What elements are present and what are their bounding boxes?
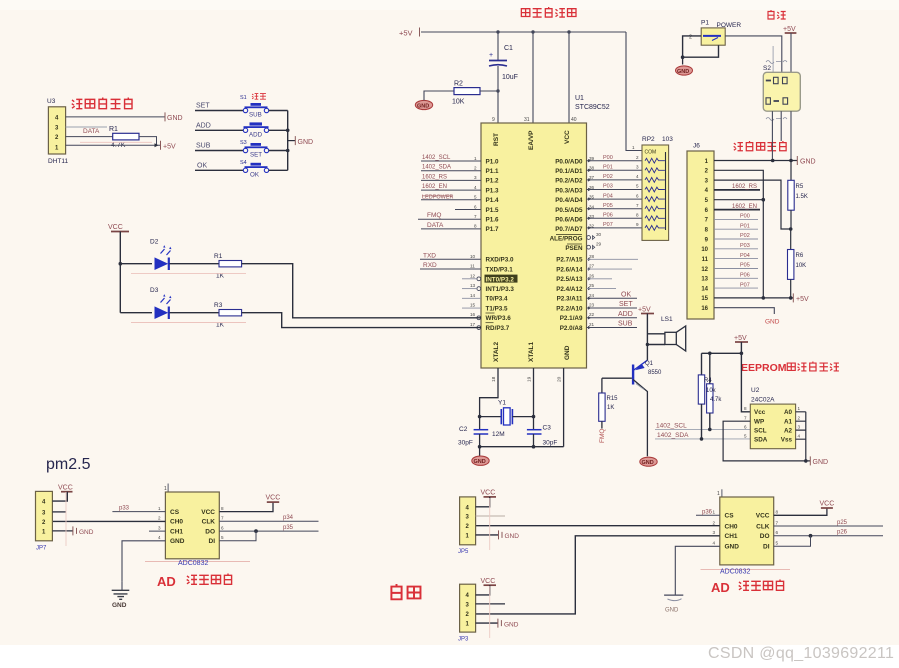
wire D2 to R1 [170,263,220,265]
svg-text:1402_SCL: 1402_SCL [422,155,451,161]
decoration pink line DHT11 [80,141,152,143]
svg-text:GND: GND [765,319,780,326]
svg-text:CH0: CH0 [725,523,738,530]
svg-text:10: 10 [701,247,708,253]
svg-text:C1: C1 [504,45,513,52]
wire JP5 pin4 to VCC [476,497,490,507]
svg-text:3: 3 [158,526,161,531]
capacitor C2 30pF [458,426,488,447]
wire J6 pin14 net P07 [714,287,758,289]
node junction rail row2 [286,129,290,133]
svg-text:+5V: +5V [399,29,413,38]
node junction C1 rail [496,30,499,33]
resistor R3 10k (pullup SDA) [698,353,704,440]
svg-text:2: 2 [798,415,801,420]
decoration pink line D2 row [131,272,246,274]
svg-text:P2.4/A12: P2.4/A12 [556,286,583,293]
power VCC (ADC1) [267,501,279,503]
svg-text:Y1: Y1 [498,400,506,407]
svg-text:SDA: SDA [754,436,768,443]
wire ADC2 CLK net p25 [774,525,883,527]
title 按键 [252,94,266,100]
svg-text:VCC: VCC [481,578,496,585]
wire ADC2 DI tie [774,536,811,547]
svg-text:INT0/P3.2: INT0/P3.2 [486,276,515,283]
svg-text:P0.3/AD3: P0.3/AD3 [555,187,583,194]
svg-text:1602_RS: 1602_RS [422,174,447,180]
wire P1.5 stub [455,209,481,211]
svg-text:16: 16 [470,312,476,317]
wire ADC2 DO net p26 [774,535,883,537]
wire rail to RP2 COM [626,32,642,151]
svg-text:GND: GND [298,139,314,146]
wire DHT11 pin1 to +5V [66,144,160,146]
power +5V (speaker) [638,307,654,345]
svg-text:23: 23 [589,303,595,308]
svg-text:P00: P00 [740,214,750,220]
svg-text:VCC: VCC [266,495,281,502]
svg-text:GND: GND [813,459,829,466]
svg-text:17: 17 [470,322,476,327]
svg-text:GND: GND [167,115,183,122]
svg-text:18: 18 [491,376,497,382]
svg-text:4.7k: 4.7k [710,397,722,403]
power GND (DHT11 pin4) [164,112,166,121]
svg-text:CS: CS [725,513,735,520]
ground GND (crystal) [472,447,489,466]
wire crystal ground rail [480,446,564,448]
wire net 1402_SCL [655,428,750,430]
power VCC (LED circuit) [108,224,129,313]
svg-text:ADD: ADD [249,131,263,138]
svg-text:AD: AD [157,574,176,589]
svg-text:A1: A1 [784,418,793,425]
svg-text:5: 5 [744,433,747,438]
wire J6 pin12 net P05 [714,268,758,270]
wire J6 pin5 [714,199,763,201]
svg-text:39: 39 [589,156,595,161]
wire S2 bottom left to GND rail [771,111,773,160]
svg-text:+5V: +5V [163,144,176,151]
svg-text:P01: P01 [740,223,750,229]
svg-text:GND: GND [170,538,185,545]
wire P0.7 to RP2 [587,227,643,229]
svg-text:P2.0/A8: P2.0/A8 [560,325,583,332]
capacitor C3 30pF [527,425,557,447]
svg-text:P1.6: P1.6 [486,217,499,224]
svg-text:22: 22 [589,312,595,317]
svg-text:D3: D3 [150,287,159,294]
svg-text:FMQ: FMQ [599,429,606,443]
wire ADC1 CH1 stub [149,530,165,532]
svg-text:p34: p34 [283,515,294,521]
decoration pink line JP7 [65,492,67,546]
wire P0.6 to RP2 [587,217,643,219]
svg-text:ADC0832: ADC0832 [720,569,750,576]
resistor R4 10k (pullup SCL) [704,353,722,431]
node junction D2 row [119,262,123,266]
svg-text:12M: 12M [492,431,505,438]
svg-text:P06: P06 [740,273,750,279]
svg-text:S3: S3 [240,140,247,146]
title 电源 [768,10,786,19]
svg-text:p25: p25 [837,520,848,526]
wire S2 bottom middle stub [780,111,782,141]
svg-text:103: 103 [662,136,673,143]
wire EA/VP to rail [532,32,534,123]
svg-text:p36: p36 [702,509,713,515]
wire JP7 pin3 stub [52,511,66,513]
svg-text:RXD: RXD [423,262,437,269]
ground GND (P1) [676,57,693,75]
wire ADC2 CH1 to JP3 pin2 [476,536,720,614]
svg-text:7: 7 [776,520,779,525]
wire P1 pin2 loop to GND [683,36,719,57]
power GND (U2) [809,456,811,465]
op-amp U4 ADC0832 (pm2.5) [145,484,250,568]
wire J6 pin10 net P03 [714,248,758,250]
node junction R5-GND rail [789,159,793,163]
wire P2.0 net SUB [587,327,638,329]
pin numbers P0 39-32 [589,156,602,247]
decoration pink line JP5 [489,498,491,550]
wire P1.0 net 1402_SCL [421,160,481,162]
wire J6 pin8 net P01 [714,228,758,230]
svg-text:7: 7 [221,516,224,521]
svg-text:R15: R15 [607,396,619,402]
wire J6 pin13 net P06 [714,277,758,279]
svg-text:CLK: CLK [756,523,770,530]
node junction crystal right [532,415,536,419]
svg-text:5: 5 [776,541,779,546]
svg-text:P0.0/AD0: P0.0/AD0 [555,158,583,165]
svg-text:8: 8 [474,224,477,229]
svg-text:P05: P05 [603,203,613,209]
node junction R1 +5V [155,143,159,147]
svg-text:P2.6/A14: P2.6/A14 [556,266,583,273]
wire P1.6 net FMQ [418,218,481,220]
svg-text:LS1: LS1 [661,316,673,323]
svg-text:P1.0: P1.0 [486,158,499,165]
ground GND (R2) [415,91,454,110]
svg-text:P1: P1 [701,20,709,27]
svg-text:+5V: +5V [734,335,747,342]
pin numbers P2 28-21 [589,254,595,327]
svg-text:8: 8 [636,213,639,218]
wire P1.2 net 1602_RS [421,179,481,181]
svg-text:P0.2/AD2: P0.2/AD2 [555,178,583,185]
wire P3.1 net RXD [420,268,481,270]
svg-text:S2: S2 [763,65,771,72]
svg-text:P1.4: P1.4 [486,197,499,204]
svg-text:P03: P03 [603,184,613,190]
svg-text:SCL: SCL [754,427,767,434]
wire P0.0 to RP2 [587,160,643,162]
svg-text:SUB: SUB [618,321,633,328]
speaker LS1 [647,316,685,351]
svg-text:30pF: 30pF [543,440,558,447]
svg-text:OK: OK [621,291,631,298]
op-amp U5 ADC0832 (formaldehyde) [701,489,791,575]
power VCC (ADC2) [821,507,833,509]
switch S4 OK [195,160,288,179]
svg-text:P06: P06 [603,213,613,219]
svg-text:5: 5 [474,195,477,200]
svg-text:VCC: VCC [481,490,496,497]
svg-text:VCC: VCC [756,513,770,520]
power VCC (JP5) [481,490,497,497]
svg-text:P02: P02 [740,233,750,239]
wire J6 pin1 GND rail [714,160,797,162]
svg-text:8: 8 [776,510,779,515]
svg-text:FMQ: FMQ [427,212,441,219]
svg-text:P04: P04 [740,253,750,259]
transistor Q1 8550 [633,345,662,457]
svg-text:STC89C52: STC89C52 [575,104,610,111]
node junction C3 rail [532,445,536,449]
wire JP3 pin4 to VCC [476,585,490,595]
svg-text:8: 8 [221,506,224,511]
svg-text:16: 16 [701,306,708,312]
node junction crystal left [478,415,482,419]
svg-text:2: 2 [636,155,639,160]
resistor R3 1K (LED) [214,302,242,329]
svg-text:R5: R5 [796,184,804,190]
svg-text:12: 12 [470,273,476,278]
wire P0.4 to RP2 [587,198,643,200]
node junction +5V pullups [740,352,744,356]
svg-text:R3: R3 [214,302,223,309]
svg-text:24: 24 [589,293,595,298]
pin numbers P1 1-8 [474,156,477,229]
svg-text:WP: WP [754,418,764,425]
svg-text:RXD/P3.0: RXD/P3.0 [486,257,514,264]
svg-text:U1: U1 [575,95,584,102]
svg-text:+5V: +5V [783,26,796,33]
wire J6 pin7 net P00 [714,218,758,220]
svg-text:EA/VP: EA/VP [528,130,535,150]
wire JP7 pin4 to VCC [52,492,67,501]
svg-text:TXD/P3.1: TXD/P3.1 [486,266,514,273]
svg-text:GND: GND [504,622,519,629]
svg-text:INT1/P3.3: INT1/P3.3 [486,286,515,293]
svg-text:ADC0832: ADC0832 [178,560,208,567]
wire J6 pin16 to GND [714,308,774,314]
svg-text:1: 1 [164,486,167,492]
svg-text:28: 28 [589,254,595,259]
op-amp U2 24C02A EEPROM [744,387,801,449]
svg-text:ADD: ADD [618,311,633,318]
wire ADC1 DO net p35 [219,530,318,532]
svg-text:GND: GND [79,529,94,536]
svg-text:P01: P01 [603,165,613,171]
resistor R2 10K [452,81,498,106]
svg-text:11: 11 [470,264,475,269]
svg-text:EEPROM: EEPROM [741,362,787,374]
svg-text:7: 7 [636,203,639,208]
power GND (J6 pin1) [796,156,798,165]
switch S3 SUB [195,140,288,159]
svg-text:C2: C2 [459,426,468,433]
svg-text:Vcc: Vcc [754,409,766,416]
wire VCC pin to rail [568,32,570,123]
wire VCC to D2 [120,263,152,265]
svg-text:CH1: CH1 [725,533,738,540]
svg-text:40: 40 [571,117,577,123]
wire net 1402_SDA [655,438,750,440]
MCU left port labels P3 [485,257,518,332]
svg-text:VCC: VCC [820,501,835,508]
svg-text:P1.1: P1.1 [486,168,499,175]
wire buttons right rail [287,111,289,171]
svg-text:GND: GND [725,544,740,551]
svg-text:SUB: SUB [249,112,262,119]
svg-text:T1/P3.5: T1/P3.5 [486,305,509,312]
power +5V (J6 pin15) [792,293,794,302]
svg-text:10uF: 10uF [502,74,518,81]
node junction EA rail [531,30,534,33]
svg-text:CSDN @qq_1039692211: CSDN @qq_1039692211 [708,645,894,662]
svg-text:DHT11: DHT11 [48,158,68,165]
node junction R5 R6 [789,227,793,231]
wire J6 pin11 net P04 [714,258,758,260]
wire ADC2 GND to earth [675,546,720,594]
wire J6 pin9 net P02 [714,238,758,240]
svg-text:R4: R4 [704,378,712,384]
svg-text:4: 4 [636,174,639,179]
svg-text:29: 29 [596,242,602,247]
svg-text:3: 3 [713,530,716,535]
wire JP3 pin1 to GND [476,622,498,624]
svg-text:1602_RS: 1602_RS [732,184,757,190]
wire P0.5 to RP2 [587,208,643,210]
svg-text:10K: 10K [796,263,807,269]
svg-text:JP3: JP3 [458,637,469,643]
svg-text:30pF: 30pF [458,440,473,447]
node junction C2 rail [478,445,482,449]
svg-text:15: 15 [701,296,708,302]
svg-text:3: 3 [636,165,639,170]
wire ADC2 CH0 to JP5 pin2 [476,525,720,527]
svg-text:10: 10 [470,254,476,259]
wire Q1 base [602,377,632,379]
svg-text:P1.7: P1.7 [486,226,499,233]
svg-text:VCC: VCC [201,509,215,516]
diode D2 LED [150,239,172,271]
svg-text:4: 4 [713,541,716,546]
svg-text:WR/P3.6: WR/P3.6 [486,315,512,322]
switch S1 SET [195,95,288,119]
svg-text:38: 38 [589,166,595,171]
svg-text:SET: SET [619,301,633,308]
MCU right port labels P2 [556,257,583,332]
svg-text:LEDPOWER: LEDPOWER [422,194,454,200]
capacitor C1 [489,32,518,123]
svg-text:A2: A2 [784,427,793,434]
svg-text:TXD: TXD [423,252,436,259]
svg-text:ADD: ADD [196,122,211,129]
svg-text:14: 14 [701,286,708,292]
svg-text:GND: GND [505,533,520,540]
wire J6 pin15 to +5V [714,297,793,299]
svg-text:GND: GND [564,345,571,360]
pin arrow marks MCU right [588,159,591,329]
title 液晶屏接口 [734,141,786,151]
svg-text:1402_SDA: 1402_SDA [657,432,689,439]
svg-text:1: 1 [474,156,477,161]
svg-text:R6: R6 [796,253,804,259]
node junction U2 ground rail [804,459,808,463]
connector JP5 [458,497,476,555]
svg-text:8: 8 [744,406,747,411]
title 甲醛 [391,584,420,599]
svg-text:1: 1 [713,510,716,515]
svg-text:JP7: JP7 [36,546,47,552]
svg-text:C3: C3 [543,425,552,432]
wire J6 pin3 VO [714,180,791,229]
wire JP3 pin3 stub [476,603,505,605]
wire ADC2 VCC [774,508,827,515]
svg-text:P03: P03 [740,243,750,249]
wire P2.7 stub [587,258,639,260]
svg-text:19: 19 [527,376,533,382]
svg-text:7: 7 [474,214,477,219]
svg-text:GND: GND [677,69,689,75]
wire DHT11 pin3 DATA [66,126,107,128]
wire P2.2 net SET [587,307,638,309]
svg-text:6: 6 [636,193,639,198]
svg-text:VCC: VCC [564,130,571,144]
svg-text:7: 7 [744,415,747,420]
wire P1 to S2 [725,36,782,72]
svg-text:DO: DO [205,529,215,536]
wire MCU GND pin20 [563,368,565,447]
svg-text:COM: COM [645,150,657,156]
svg-text:U2: U2 [751,387,760,394]
node junction emitter speaker [646,343,649,346]
wire JP7 pin1 to GND [52,530,72,532]
wire JP5 pin3 stub [476,515,505,517]
pin numbers P3 10-17 [470,254,476,327]
svg-text:30: 30 [596,232,602,237]
svg-text:2: 2 [158,516,161,521]
svg-text:10K: 10K [452,99,465,106]
svg-text:T0/P3.4: T0/P3.4 [486,296,509,303]
wire P0.2 to RP2 [587,179,643,181]
svg-text:JP5: JP5 [458,549,469,555]
svg-text:P0.1/AD1: P0.1/AD1 [555,168,583,175]
node junction ADC2 DO-DI [809,534,813,538]
svg-text:+5V: +5V [638,307,651,314]
svg-text:p35: p35 [283,525,294,531]
svg-text:DI: DI [763,544,770,551]
svg-text:P0.5/AD5: P0.5/AD5 [555,207,583,214]
svg-text:9: 9 [636,222,639,227]
wire P3.4 stub [462,297,481,299]
svg-text:U3: U3 [47,98,56,105]
wire D3 to R3 [170,312,220,314]
ground earth (ADC1) [112,582,130,609]
svg-text:P1.5: P1.5 [486,207,499,214]
wire P3.0 net TXD [420,258,481,260]
svg-text:10k: 10k [706,388,717,394]
svg-text:4: 4 [474,185,477,190]
power +5V (DHT11) [160,141,162,150]
svg-text:11: 11 [702,257,709,263]
svg-text:CS: CS [170,509,180,516]
svg-text:1K: 1K [607,405,614,411]
svg-text:SET: SET [196,103,210,110]
